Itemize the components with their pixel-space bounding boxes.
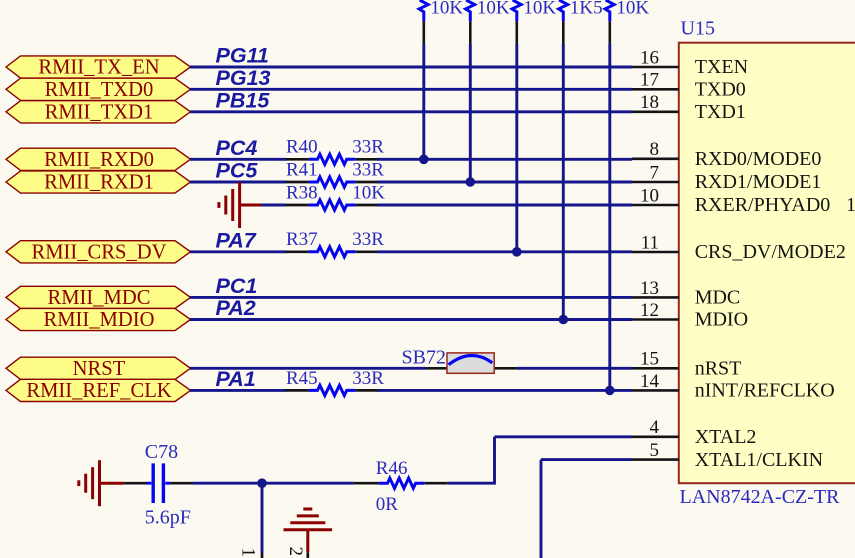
designator R38 label <box>286 182 318 203</box>
pin 18 line <box>632 111 679 114</box>
svg-text:U15: U15 <box>681 18 715 40</box>
resistor R45 <box>286 385 378 395</box>
svg-text:XTAL2: XTAL2 <box>695 426 757 448</box>
svg-text:12: 12 <box>640 300 659 321</box>
pin name nINT/REFCLKO <box>695 380 835 402</box>
wire R38 to pin 10 <box>377 204 632 207</box>
value label 10K <box>616 0 649 19</box>
svg-text:RMII_TX_EN: RMII_TX_EN <box>38 57 159 79</box>
pin number 16 <box>640 47 659 68</box>
svg-text:RXD0/MODE0: RXD0/MODE0 <box>695 148 822 170</box>
svg-text:TXD1: TXD1 <box>695 101 746 123</box>
net flag RMII_TX_EN <box>6 56 191 79</box>
resistor pull-up 10K at x=516.8 <box>512 0 521 21</box>
wire pin 5 XTAL1 horizontal <box>541 458 632 461</box>
svg-text:C78: C78 <box>145 441 178 463</box>
pin 14 line <box>632 389 679 392</box>
net label PC4 <box>216 136 258 160</box>
resistor R37 <box>286 247 378 257</box>
junction MDIO/pullup <box>559 315 569 325</box>
svg-text:PG11: PG11 <box>216 44 269 68</box>
pin name RXD0/MODE0 <box>695 148 822 170</box>
svg-text:RMII_MDIO: RMII_MDIO <box>44 309 155 331</box>
pin name XTAL1/CLKIN <box>695 449 823 471</box>
value label LAN8742A-CZ-TR <box>680 486 841 508</box>
svg-text:TXEN: TXEN <box>695 56 748 78</box>
svg-text:10K: 10K <box>523 0 556 19</box>
pin number 8 <box>650 139 660 160</box>
pin 16 line <box>632 66 679 69</box>
svg-text:17: 17 <box>640 70 659 91</box>
value 0R label <box>376 494 399 515</box>
svg-text:33R: 33R <box>352 159 384 180</box>
svg-text:PC5: PC5 <box>216 159 259 183</box>
wire RMII_REF_CLK to R45 <box>190 389 287 392</box>
svg-text:10K: 10K <box>352 182 385 203</box>
svg-text:MDIO: MDIO <box>695 309 748 331</box>
op-amp U15 component body (LAN8742A) <box>679 43 855 484</box>
svg-text:RMII_RXD1: RMII_RXD1 <box>44 172 154 194</box>
wire C78 to junction <box>193 482 262 485</box>
net flag RMII_REF_CLK <box>6 379 191 402</box>
resistor R46 <box>354 478 448 488</box>
junction C78/R46/crystal <box>257 478 267 488</box>
net flag RMII_TXD0 <box>6 78 191 101</box>
resistor R40 <box>286 154 378 164</box>
wire RMII_TXD0 row <box>190 88 632 91</box>
partial pin name 1 at right edge <box>846 194 855 216</box>
pin number 10 <box>640 185 659 206</box>
svg-text:13: 13 <box>640 278 659 299</box>
svg-text:11: 11 <box>641 232 659 253</box>
net flag RMII_TXD1 <box>6 101 191 124</box>
svg-text:R38: R38 <box>286 182 318 203</box>
svg-text:14: 14 <box>640 371 660 392</box>
pin of pull-up at x=516.8 <box>515 21 518 44</box>
ground (C78) <box>79 460 123 506</box>
svg-text:4: 4 <box>650 417 660 438</box>
net flag RMII_RXD1 <box>6 171 191 194</box>
resistor pull-up 1K5 at x=563.3 <box>559 0 568 21</box>
svg-text:NRST: NRST <box>73 358 126 380</box>
svg-text:PA2: PA2 <box>216 296 256 320</box>
wire junction to R46 <box>262 482 354 485</box>
junction nINT/pullup <box>605 386 615 396</box>
svg-text:LAN8742A-CZ-TR: LAN8742A-CZ-TR <box>680 486 841 508</box>
pin number 1 (rotated) <box>238 548 259 558</box>
wire pull-up column x=470.3 <box>469 44 472 182</box>
svg-text:7: 7 <box>650 162 660 183</box>
wire pull-up column x=609.8 <box>608 44 611 391</box>
pin 17 line <box>632 88 679 91</box>
ground (R38 input) <box>219 182 262 228</box>
net label PC5 <box>216 159 259 183</box>
svg-text:33R: 33R <box>352 137 384 158</box>
svg-text:10K: 10K <box>430 0 463 19</box>
pin number 4 <box>650 417 660 438</box>
wire NRST to SB72 <box>190 367 426 370</box>
pin 11 line <box>632 251 679 254</box>
svg-text:1K5: 1K5 <box>570 0 603 19</box>
net label PA7 <box>216 228 257 252</box>
designator C78 label <box>145 441 178 463</box>
wire R46 to corner <box>447 482 494 485</box>
net label PG11 <box>216 44 269 68</box>
solder bridge SB72 pins <box>426 367 517 370</box>
pin of pull-up at x=563.3 <box>562 21 565 44</box>
pin 10 line <box>632 204 679 207</box>
svg-text:MDC: MDC <box>695 287 741 309</box>
net label PB15 <box>216 88 271 112</box>
pin of pull-up at x=609.8 <box>608 21 611 44</box>
svg-text:RXD1/MODE1: RXD1/MODE1 <box>695 171 822 193</box>
value 33R label <box>352 229 384 250</box>
wire SB72 to pin 15 <box>517 367 632 370</box>
ground (crystal case) <box>284 509 333 558</box>
resistor pull-up 10K at x=470.3 <box>466 0 475 21</box>
value 5.6pF label <box>145 506 191 528</box>
wire pull-up column x=516.8 <box>515 44 518 252</box>
pin number 2 (rotated) <box>285 547 306 557</box>
crystal pin 1 stub <box>261 553 264 558</box>
wire RMII_MDIO row <box>190 318 632 321</box>
designator R45 label <box>286 368 318 389</box>
svg-text:R40: R40 <box>286 137 318 158</box>
svg-text:RMII_TXD0: RMII_TXD0 <box>45 79 154 101</box>
wire RMII_RXD1 to R41 <box>190 181 287 184</box>
pin 8 line <box>632 158 679 161</box>
pin of pull-up at x=470.3 <box>469 21 472 44</box>
wire pull-up column x=423.8 <box>422 44 425 159</box>
pin number 13 <box>640 278 659 299</box>
resistor pull-up 10K at x=423.8 <box>419 0 428 21</box>
value label 10K <box>477 0 510 19</box>
pin name XTAL2 <box>695 426 757 448</box>
svg-text:PG13: PG13 <box>216 66 271 90</box>
svg-text:nINT/REFCLKO: nINT/REFCLKO <box>695 380 835 402</box>
svg-text:RMII_RXD0: RMII_RXD0 <box>44 149 154 171</box>
value 33R label <box>352 368 384 389</box>
net flag RMII_MDIO <box>6 308 191 331</box>
pin name MDC <box>695 287 741 309</box>
wire XTAL1 down to crystal <box>540 460 543 558</box>
svg-text:10: 10 <box>640 185 659 206</box>
svg-text:SB72: SB72 <box>402 347 446 369</box>
svg-text:RXER/PHYAD0: RXER/PHYAD0 <box>695 194 831 216</box>
designator SB72 label <box>402 347 446 369</box>
capacitor C78 <box>123 463 193 503</box>
resistor pull-up 10K at x=609.8 <box>605 0 614 21</box>
svg-text:RMII_TXD1: RMII_TXD1 <box>45 101 154 123</box>
pin number 18 <box>640 92 659 113</box>
pin number 17 <box>640 70 659 91</box>
wire RMII_TXD1 row <box>190 110 632 113</box>
designator R40 label <box>286 137 318 158</box>
svg-text:5.6pF: 5.6pF <box>145 506 191 528</box>
svg-text:TXD0: TXD0 <box>695 79 746 101</box>
svg-text:XTAL1/CLKIN: XTAL1/CLKIN <box>695 449 823 471</box>
svg-text:PC4: PC4 <box>216 136 258 160</box>
svg-text:PA7: PA7 <box>216 228 257 252</box>
svg-text:PB15: PB15 <box>216 88 271 112</box>
value 33R label <box>352 137 384 158</box>
pin number 14 <box>640 371 660 392</box>
solder bridge SB72 body <box>447 353 494 373</box>
svg-text:RMII_REF_CLK: RMII_REF_CLK <box>26 380 171 402</box>
svg-text:2: 2 <box>285 547 306 557</box>
junction R41/pullup <box>466 177 476 187</box>
value label 10K <box>523 0 556 19</box>
pin number 15 <box>640 349 659 370</box>
net label PC1 <box>216 274 258 298</box>
net flag NRST <box>6 357 191 380</box>
pin name TXD1 <box>695 101 746 123</box>
svg-text:8: 8 <box>650 139 660 160</box>
pin 4 line <box>632 435 679 438</box>
net flag RMII_RXD0 <box>6 148 191 171</box>
svg-text:RMII_CRS_DV: RMII_CRS_DV <box>31 241 166 263</box>
net label PG13 <box>216 66 271 90</box>
svg-text:15: 15 <box>640 349 659 370</box>
svg-text:RMII_MDC: RMII_MDC <box>48 287 151 309</box>
net flag RMII_CRS_DV <box>6 241 191 264</box>
svg-text:R46: R46 <box>376 458 408 479</box>
pin name nRST <box>695 358 742 380</box>
junction R40/pullup <box>419 155 429 165</box>
svg-text:5: 5 <box>650 440 660 461</box>
svg-text:10K: 10K <box>477 0 510 19</box>
pin name RXD1/MODE1 <box>695 171 822 193</box>
pin number 7 <box>650 162 660 183</box>
wire pull-up column x=563.3 <box>562 44 565 320</box>
pin name CRS_DV/MODE2 <box>695 241 846 263</box>
wire R37 to pin 11 <box>377 250 632 253</box>
designator R37 label <box>286 229 318 250</box>
pin of pull-up at x=423.8 <box>422 21 425 44</box>
junction R37/pullup <box>512 247 522 257</box>
svg-text:0R: 0R <box>376 494 399 515</box>
wire R45 to pin 14 <box>377 389 632 392</box>
svg-text:R37: R37 <box>286 229 318 250</box>
svg-text:18: 18 <box>640 92 659 113</box>
wire R41 to pin 7 <box>377 181 632 184</box>
pin name TXEN <box>695 56 748 78</box>
wire corner up to XTAL2 <box>493 437 496 485</box>
svg-text:1: 1 <box>238 548 259 558</box>
pin name RXER/PHYAD0 <box>695 194 831 216</box>
svg-text:10K: 10K <box>616 0 649 19</box>
pin name MDIO <box>695 309 748 331</box>
svg-text:PC1: PC1 <box>216 274 258 298</box>
value label 1K5 <box>570 0 603 19</box>
wire to pin 4 XTAL2 <box>495 435 633 438</box>
pin name TXD0 <box>695 79 746 101</box>
pin number 11 <box>641 232 659 253</box>
svg-text:33R: 33R <box>352 368 384 389</box>
pin 5 line <box>632 458 679 461</box>
wire RMII_CRS_DV to R37 <box>190 250 287 253</box>
net flag RMII_MDC <box>6 286 191 309</box>
pin number 5 <box>650 440 660 461</box>
value 33R label <box>352 159 384 180</box>
pin 15 line <box>632 367 679 370</box>
value 10K label <box>352 182 385 203</box>
svg-text:33R: 33R <box>352 229 384 250</box>
svg-text:1: 1 <box>846 194 855 216</box>
pin number 12 <box>640 300 659 321</box>
wire RMII_TX_EN row <box>190 66 632 69</box>
svg-text:R45: R45 <box>286 368 318 389</box>
pin 12 line <box>632 318 679 321</box>
svg-text:16: 16 <box>640 47 659 68</box>
designator R46 label <box>376 458 408 479</box>
svg-text:nRST: nRST <box>695 358 742 380</box>
net label PA1 <box>216 367 256 391</box>
svg-text:PA1: PA1 <box>216 367 256 391</box>
designator U15 <box>681 18 715 40</box>
designator R41 label <box>286 159 318 180</box>
svg-text:R41: R41 <box>286 159 318 180</box>
resistor R41 <box>286 177 378 187</box>
net label PA2 <box>216 296 256 320</box>
pin 13 line <box>632 296 679 299</box>
value label 10K <box>430 0 463 19</box>
pin 7 line <box>632 181 679 184</box>
wire R40 to pin 8 <box>377 158 632 161</box>
resistor R38 <box>286 200 378 210</box>
svg-text:CRS_DV/MODE2: CRS_DV/MODE2 <box>695 241 846 263</box>
wire RMII_RXD0 to R40 <box>190 158 287 161</box>
wire junction down to crystal pin 1 <box>261 483 264 553</box>
wire RMII_MDC row <box>190 296 632 299</box>
wire ground to R38 <box>261 204 287 207</box>
